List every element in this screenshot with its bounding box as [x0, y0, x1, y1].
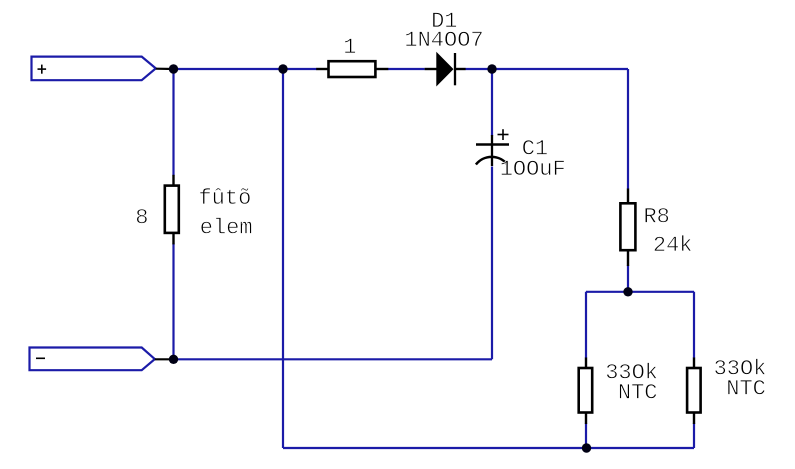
- connector + terminal: [32, 57, 174, 81]
- svg-text:1N4OO7: 1N4OO7: [404, 28, 483, 53]
- wire right NTC vertical: [693, 292, 695, 448]
- wire right vertical down to R8: [627, 69, 629, 292]
- junction node bottom NTC: [582, 443, 591, 452]
- wire capacitor vertical: [491, 69, 493, 359]
- capacitor C1 100uF polarized: [476, 129, 566, 182]
- wire left NTC vertical: [585, 292, 587, 448]
- svg-text:1: 1: [343, 35, 356, 60]
- wire bottom horizontal: [283, 447, 694, 449]
- svg-text:R8: R8: [643, 205, 669, 230]
- wire top horizontal from +node to corner: [174, 68, 629, 70]
- diode D1 1N4007: [404, 9, 483, 85]
- resistor NTC left 330k: [579, 358, 658, 425]
- wire bridge top horizontal: [586, 291, 694, 293]
- wire minus horizontal to capacitor: [174, 358, 493, 360]
- svg-text:1OOuF: 1OOuF: [500, 157, 566, 182]
- connector - terminal: [30, 348, 174, 371]
- resistor R8 24k: [620, 189, 692, 267]
- resistor heater element value 8: [135, 175, 252, 245]
- junction node at + terminal: [169, 64, 178, 73]
- svg-text:NTC: NTC: [618, 381, 658, 406]
- wire middle vertical x=283: [282, 69, 284, 448]
- junction node top middle branch: [278, 64, 287, 73]
- svg-text:elem: elem: [200, 216, 253, 241]
- resistor NTC right 330k: [687, 357, 766, 425]
- svg-text:24k: 24k: [653, 233, 693, 258]
- junction node R8 to NTC bridge: [623, 287, 632, 296]
- resistor R1 value 1 (series resistor): [316, 35, 388, 77]
- junction node at - terminal: [169, 355, 178, 364]
- junction node after diode: [487, 64, 496, 73]
- svg-text:NTC: NTC: [726, 377, 766, 402]
- svg-text:fûtõ: fûtõ: [198, 186, 251, 211]
- wire left vertical x=173.5 through heater: [172, 69, 174, 359]
- svg-text:8: 8: [135, 206, 148, 231]
